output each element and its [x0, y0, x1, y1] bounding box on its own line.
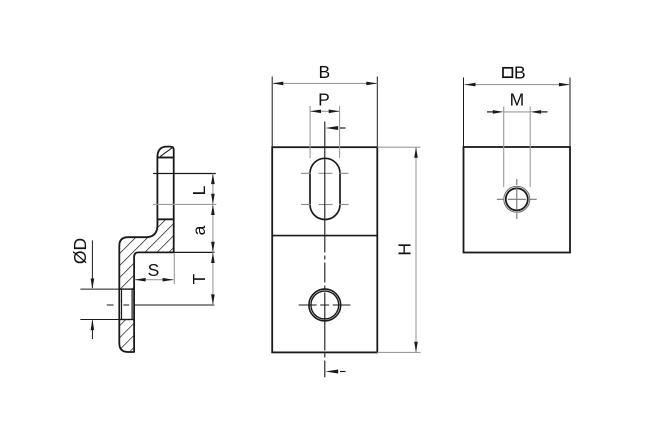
svg-text:B: B — [319, 62, 331, 82]
svg-text:H: H — [395, 243, 415, 256]
svg-text:ØD: ØD — [70, 238, 90, 264]
svg-text:P: P — [318, 90, 330, 110]
svg-text:S: S — [148, 260, 160, 280]
svg-text:T: T — [189, 273, 209, 284]
svg-text:M: M — [510, 90, 525, 110]
svg-text:a: a — [189, 225, 209, 235]
svg-text:B: B — [514, 63, 526, 83]
svg-text:L: L — [189, 185, 209, 195]
